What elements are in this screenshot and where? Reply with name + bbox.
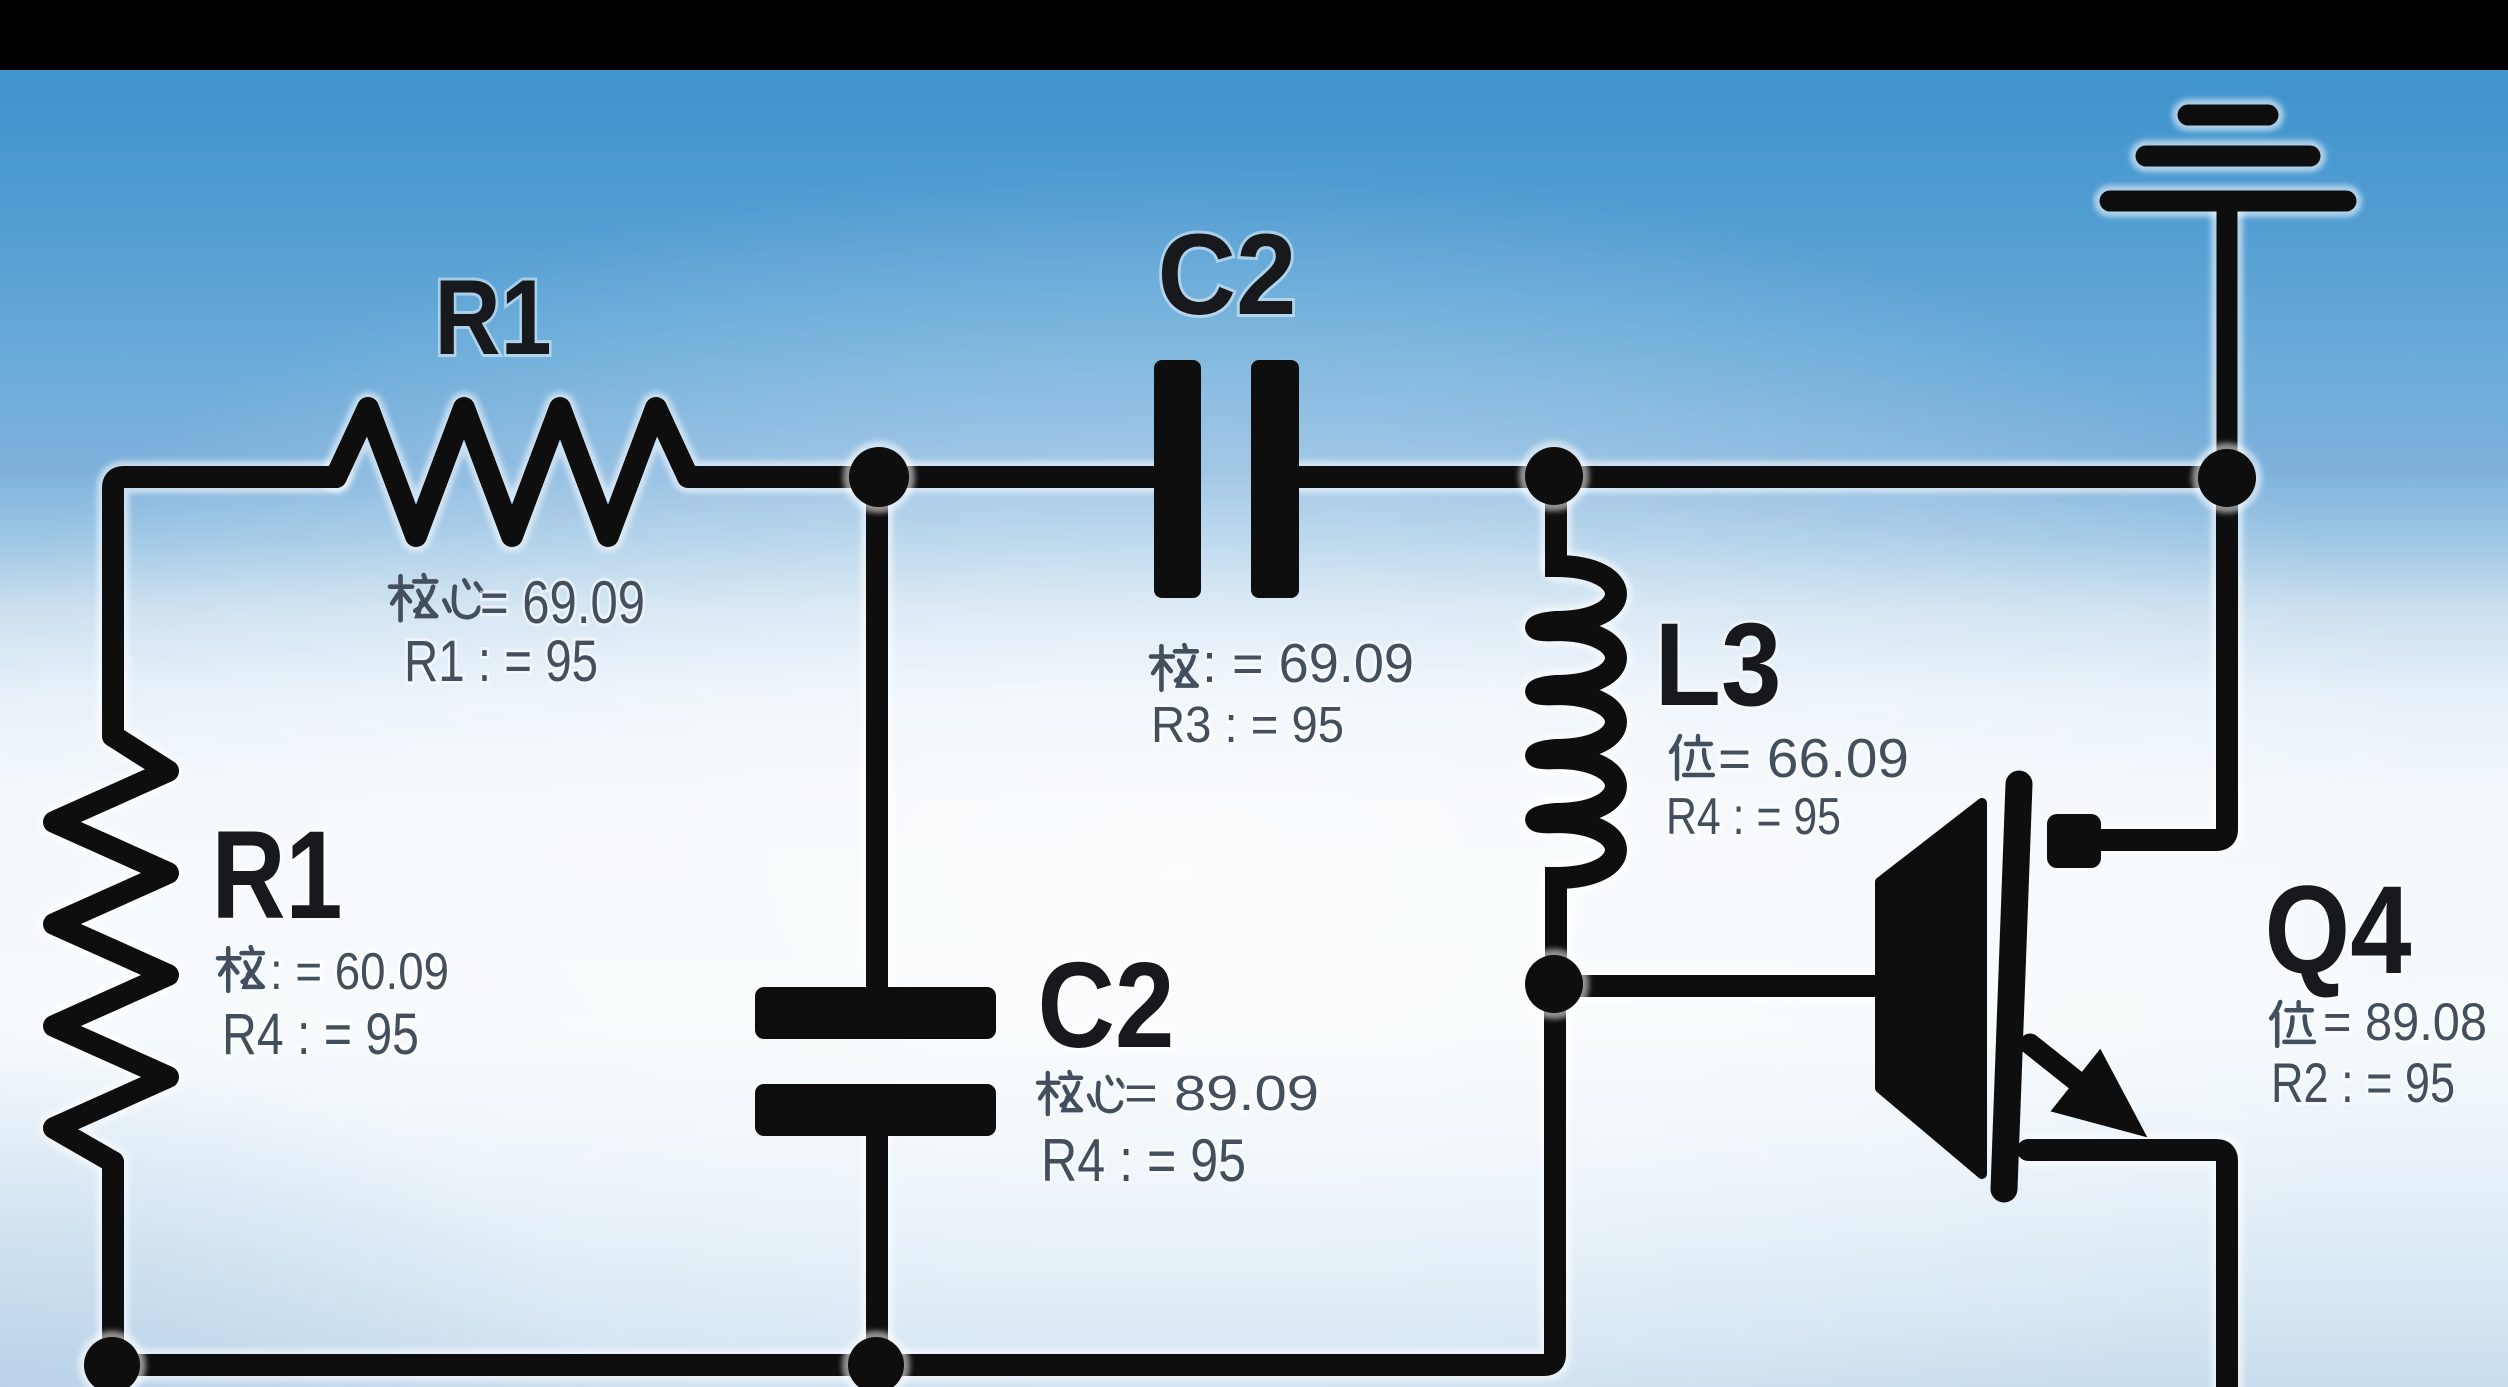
wire: C2 vertical branch [866,477,888,1365]
svg-text:R1: R1 [435,257,552,377]
value text top resistor [390,575,481,620]
svg-text:= 66.09: = 66.09 [1718,727,1909,789]
value text inductor [1671,736,1713,779]
node A junction (R1/C2 branch) [843,441,915,513]
svg-text:: = 60.09: : = 60.09 [270,943,449,1001]
node E junction (bottom left) [78,1331,146,1387]
svg-text:= 89.09: = 89.09 [1124,1067,1319,1121]
value text bottom capacitor [1038,1072,1123,1114]
value text transistor [2271,1002,2314,1046]
wire: top rail from C2 to right corner [1299,466,2227,488]
svg-text:Q4: Q4 [2265,861,2412,1000]
node C junction (ground rail) [2192,443,2262,513]
value text left resistor [218,947,263,991]
svg-text:C2: C2 [1038,937,1175,1073]
wire: right rail from ground junction down to gate [2101,478,2227,840]
wire: emitter to right rail down [2028,1150,2227,1387]
transistor Q4 emitter arrow [2005,1013,2172,1169]
resistor R1 horizontal zigzag [336,408,1154,536]
top black bar [0,0,2508,70]
capacitor C2 horizontal plates [1154,360,1299,598]
svg-text:= 89.08: = 89.08 [2323,993,2487,1052]
wire: left rail + bottom rail [113,477,1555,1365]
capacitor C2 vertical plates [755,987,996,1136]
svg-text:C2: C2 [1158,211,1297,339]
svg-text:: = 69.09: : = 69.09 [1202,632,1414,694]
svg-text:R4 : = 95: R4 : = 95 [222,1002,419,1067]
svg-text:= 69.09: = 69.09 [480,569,645,636]
node B junction (C2/L3) [1519,441,1589,511]
transistor Q4 channel bar [2004,784,2019,1189]
wire: collector stub to Q4 [1556,975,1880,997]
node F junction (bottom C2) [842,1331,910,1387]
node D junction (L3/Q4 collector) [1519,949,1589,1019]
inductor L3 coil [1536,477,1616,986]
transistor Q4 gate pad [2047,814,2101,868]
svg-text:R4 : = 95: R4 : = 95 [1666,788,1841,846]
value text top capacitor [1151,645,1197,690]
svg-text:R1 : = 95: R1 : = 95 [404,629,598,694]
svg-text:R3 : = 95: R3 : = 95 [1151,696,1344,753]
transistor Q4 body trapezoid [1880,803,1982,1174]
ground symbol [2110,115,2346,466]
svg-text:R2 : = 95: R2 : = 95 [2271,1051,2455,1114]
svg-text:L3: L3 [1655,599,1782,731]
svg-text:R1: R1 [212,806,343,945]
svg-text:R4 : = 95: R4 : = 95 [1041,1127,1246,1194]
resistor R1 vertical zigzag [54,736,168,1162]
